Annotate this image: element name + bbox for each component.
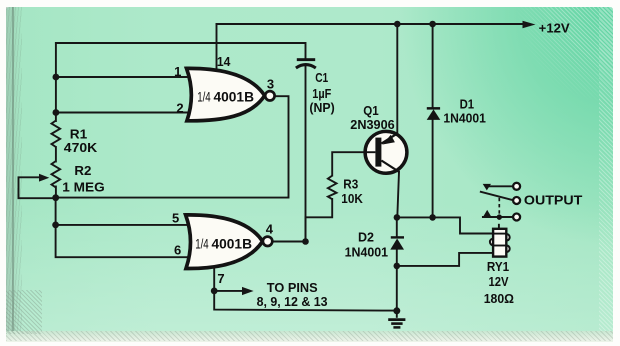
wire node to gate2 inputs rail (56, 198, 187, 258)
svg-text:TO PINS: TO PINS (267, 280, 318, 295)
svg-text:D1: D1 (460, 97, 475, 111)
svg-text:10K: 10K (341, 192, 363, 206)
junction node pot bottom (52, 194, 59, 201)
wire D2 bottom to node C (396, 250, 398, 266)
wire node A to R3 bottom (306, 199, 333, 242)
svg-text:1µF: 1µF (312, 87, 331, 101)
svg-text:6: 6 (174, 243, 181, 258)
svg-text:RY1: RY1 (487, 260, 509, 274)
relay coil divider top (493, 233, 506, 235)
svg-text:4001B: 4001B (214, 88, 255, 104)
pin7 arrowhead TO PINS (242, 287, 254, 295)
gate1 output bubble pin3 (265, 91, 274, 100)
wire feedback top from left rail to C1 (56, 43, 306, 58)
diode D1 cathode bar (427, 107, 440, 110)
junction node rail-emitter (394, 21, 401, 28)
ground (388, 313, 405, 327)
junction node B collector (394, 214, 401, 221)
wire D2 top (396, 217, 398, 236)
wire gate1 input 1 (56, 76, 189, 78)
wire R2 wiper loop (19, 177, 53, 198)
Q1 emitter arrow (PNP) (383, 135, 395, 145)
gate2 output bubble pin4 (263, 237, 272, 246)
resistor R1 (52, 121, 61, 148)
wire pin7 arrow shaft (214, 290, 243, 292)
wire feedback pin3 to pot node (56, 96, 289, 197)
svg-text:180Ω: 180Ω (484, 292, 514, 306)
svg-text:4: 4 (266, 221, 274, 236)
op-amp U1b NOR gate 2 body (186, 215, 263, 269)
svg-text:C1: C1 (315, 71, 328, 85)
wire output bottom contact (483, 216, 513, 218)
junction node C D2 anode (394, 263, 401, 270)
svg-text:+12V: +12V (539, 21, 570, 36)
svg-text:OUTPUT: OUTPUT (524, 193, 583, 208)
Q1 base lead (365, 151, 375, 153)
potentiometer R2 (52, 161, 61, 188)
junction node rail-D1 (429, 21, 436, 28)
relay RY1 coil left bump (490, 239, 497, 246)
wire D1 top (432, 24, 434, 107)
svg-text:Q1: Q1 (363, 104, 379, 118)
wire gate2 input 5 (56, 224, 187, 226)
wire R2 bottom to node (55, 187, 57, 198)
svg-text:1/4: 1/4 (197, 88, 211, 104)
svg-text:4001B: 4001B (212, 235, 253, 251)
junction node B D1 (429, 214, 436, 221)
wire gate2 pin7 down (213, 267, 215, 291)
op-amp U1a NOR gate 1 body (187, 68, 265, 120)
junction node ground (393, 307, 400, 314)
wire node B row to relay upper (397, 217, 493, 233)
svg-text:470K: 470K (64, 141, 97, 155)
wire R1-R2 link (55, 147, 57, 162)
relay RY1 coil body (493, 229, 506, 257)
wire left rail segment top (55, 43, 57, 121)
diode D1 triangle (427, 109, 441, 120)
relay RY1 coil right bumps (503, 234, 510, 241)
svg-text:R3: R3 (343, 178, 358, 192)
wire relay armature (481, 192, 513, 200)
+12V arrowhead (523, 21, 536, 29)
wire Q1 collector down to node B (397, 172, 399, 218)
svg-text:1 MEG: 1 MEG (62, 181, 104, 195)
output terminal top (513, 183, 520, 190)
wire C1 bottom to node A (305, 67, 307, 242)
diode D2 cathode bar (391, 236, 404, 238)
armature pivot triangle (down) (483, 184, 491, 191)
svg-text:14: 14 (217, 54, 231, 69)
junction node input1 (53, 74, 60, 81)
svg-text:2: 2 (176, 100, 183, 115)
Q1 base bar (375, 138, 381, 167)
resistor R3 (328, 176, 337, 200)
relay mechanical dashed link (498, 198, 500, 223)
svg-text:1/4: 1/4 (195, 235, 209, 251)
wire gate1 input 2 (56, 112, 189, 114)
capacitor C1 bottom plate (296, 65, 316, 68)
junction node pin7 (211, 288, 218, 295)
relay coil divider mid (493, 245, 506, 247)
svg-text:3: 3 (267, 76, 274, 91)
wire R3 top to Q1 base (332, 152, 365, 175)
wire pin7 node to ground node (214, 291, 397, 311)
output terminal bottom (513, 214, 520, 221)
junction node input5 (52, 222, 59, 229)
svg-text:1N4001: 1N4001 (345, 245, 389, 259)
svg-text:8, 9, 12 & 13: 8, 9, 12 & 13 (257, 294, 328, 309)
NC contact triangle (up) (483, 210, 492, 217)
diode D2 triangle (390, 239, 404, 250)
svg-text:D2: D2 (358, 231, 374, 245)
output terminal middle (513, 197, 520, 204)
wire +12V top rail (217, 23, 524, 25)
svg-text:5: 5 (172, 210, 179, 225)
svg-text:R2: R2 (74, 164, 91, 178)
wire output top contact (488, 185, 513, 187)
svg-text:12V: 12V (489, 275, 510, 289)
svg-text:1N4001: 1N4001 (443, 112, 486, 126)
R2 wiper arrowhead (39, 174, 49, 182)
svg-text:2N3906: 2N3906 (350, 118, 394, 132)
svg-text:7: 7 (217, 271, 224, 286)
wire node C to ground (396, 266, 398, 311)
Q1 emitter lead (381, 133, 397, 143)
wire node C to relay lower (397, 253, 493, 266)
wire pin14 vertical (216, 24, 218, 69)
svg-text:R1: R1 (70, 127, 88, 141)
relay coil top stub (498, 224, 500, 229)
junction node A gate2 out (302, 238, 309, 245)
junction node input2 (53, 109, 60, 116)
wire Q1 emitter to +12V rail (396, 24, 398, 133)
svg-text:(NP): (NP) (309, 101, 334, 115)
junction dot on NC contact line (497, 214, 502, 219)
wire D1 bottom to node B (432, 120, 434, 218)
wire gate2 output to node A (273, 241, 306, 243)
Q1 collector lead (381, 161, 399, 172)
svg-text:1: 1 (174, 64, 181, 79)
capacitor C1 top plate (297, 58, 315, 61)
transistor Q1 circle (365, 131, 407, 173)
